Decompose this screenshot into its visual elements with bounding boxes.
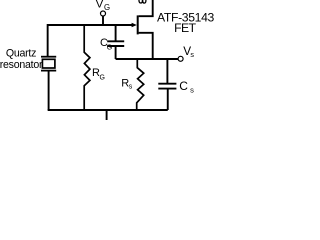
svg-text:resonator: resonator xyxy=(0,59,43,71)
svg-text:G: G xyxy=(100,74,105,81)
svg-text:G: G xyxy=(107,44,112,51)
svg-text:FET: FET xyxy=(174,21,196,35)
svg-text:C: C xyxy=(179,79,188,93)
svg-text:s: s xyxy=(129,84,133,91)
svg-text:s: s xyxy=(190,86,194,95)
svg-text:G: G xyxy=(104,3,110,12)
svg-text:s: s xyxy=(190,50,194,59)
svg-text:V: V xyxy=(96,0,104,11)
svg-text:Quartz: Quartz xyxy=(6,47,36,59)
